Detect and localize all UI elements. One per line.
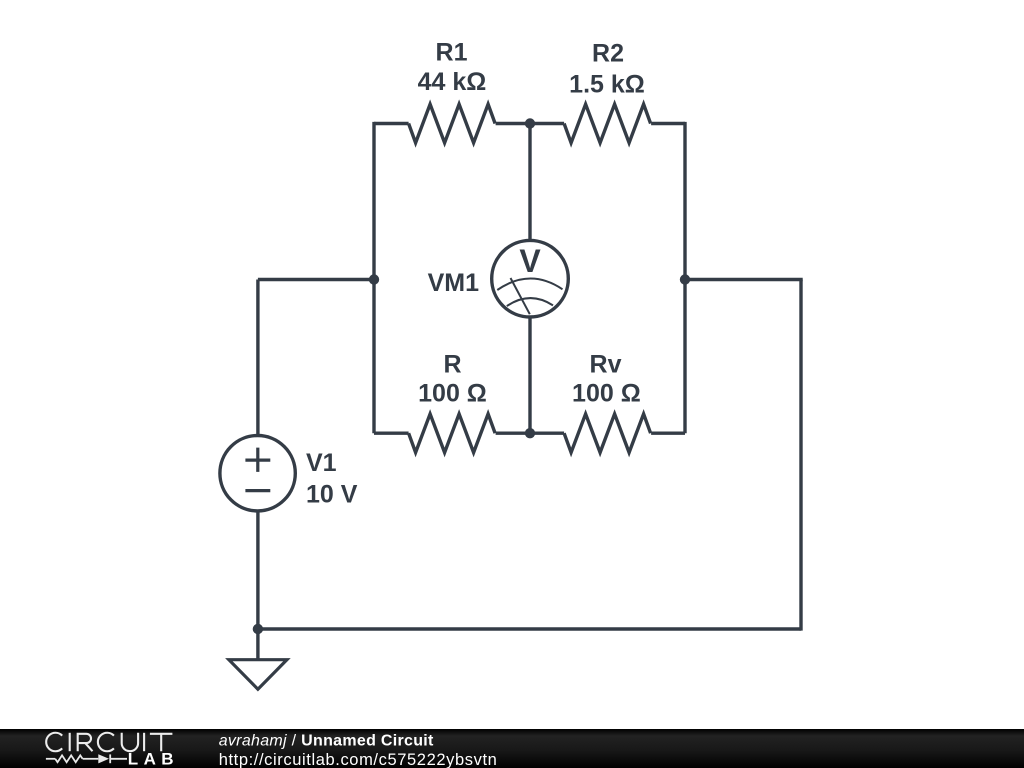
wire mid-left tap [258,278,374,281]
wire R to node [496,432,530,435]
svg-text:Rv: Rv [590,351,622,379]
wire mid-right tap [685,278,803,281]
svg-text:44 kΩ: 44 kΩ [418,68,487,96]
resistor R1 [409,104,496,143]
wire left rail [372,122,375,433]
wire top-left lead [374,122,409,125]
svg-text:100 Ω: 100 Ω [572,380,641,408]
svg-text:R2: R2 [592,40,624,68]
svg-text:R: R [443,351,461,379]
logo resistor-diode glyph [46,754,127,763]
svg-text:1.5 kΩ: 1.5 kΩ [569,71,645,99]
wire center top stem [528,124,531,243]
svg-text:100 Ω: 100 Ω [418,380,487,408]
resistor R [409,414,496,453]
wire V1 bottom lead [256,511,259,629]
wire node to Rv [530,432,564,435]
wire V1 top lead [256,280,259,437]
wire R2 to right rail [651,122,685,125]
resistor Rv [564,414,651,453]
svg-text:http://circuitlab.com/c575222y: http://circuitlab.com/c575222ybsvtn [219,751,498,768]
svg-text:LAB: LAB [128,749,179,768]
svg-text:R1: R1 [436,38,468,66]
wire right rail [683,122,686,433]
ground [229,660,287,690]
wire node to R2 [530,122,564,125]
wire ground stub [256,629,259,660]
wire bottom-left lead [374,432,409,435]
svg-text:avrahamj / Unnamed Circuit: avrahamj / Unnamed Circuit [219,733,434,750]
wire right outer rail [799,280,802,631]
wire center bottom stem [528,316,531,434]
wire Rv to right rail [651,432,685,435]
resistor R2 [564,104,651,143]
node junction bottom [525,428,535,438]
voltmeter VM1 [492,240,569,317]
node junction top [525,118,535,128]
wire R1 to node [496,122,530,125]
voltage source V1 [220,436,295,511]
svg-text:V1: V1 [306,449,337,477]
wire bottom rail [258,627,801,630]
svg-text:10 V: 10 V [306,481,358,509]
node junction mid-right [680,274,690,284]
svg-text:V: V [519,243,541,279]
CircuitLab logo wordmark [46,733,172,752]
svg-text:VM1: VM1 [428,269,480,297]
node junction mid-left [369,274,379,284]
node junction ground [253,624,263,634]
